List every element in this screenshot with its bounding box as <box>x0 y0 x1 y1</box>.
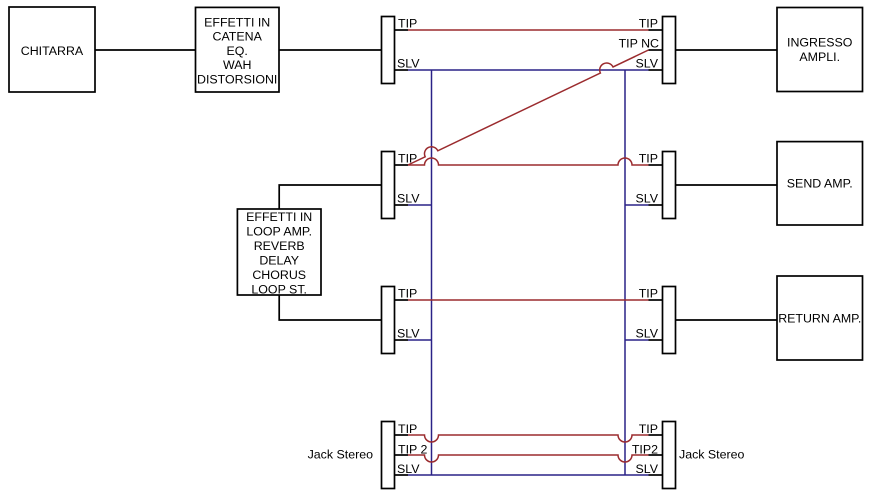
svg-text:SLV: SLV <box>636 462 659 476</box>
svg-text:TIP: TIP <box>639 422 658 436</box>
svg-text:CHITARRA: CHITARRA <box>21 44 84 58</box>
jack J1R (row1 right) <box>663 17 676 84</box>
svg-text:EFFETTI IN: EFFETTI IN <box>204 16 270 30</box>
pin stub J1R SLV <box>649 69 663 71</box>
pin stub J1R TIP <box>649 29 663 31</box>
wire SLV row3 right (blue) <box>625 339 649 341</box>
pin stub J3R SLV <box>649 339 663 341</box>
wire J2R to SEND AMP <box>676 184 778 186</box>
svg-text:TIP: TIP <box>398 17 417 31</box>
pin stub J2L TIP <box>395 164 409 166</box>
wire EFFETTI LOOP top to jack J2L <box>279 185 381 209</box>
pin stub J4R SLV <box>649 474 663 476</box>
wire J1R to INGRESSO AMPLI <box>676 49 778 51</box>
svg-text:TIP: TIP <box>639 287 658 301</box>
pin stub J4R TIP2 <box>649 454 663 456</box>
pin stub J2L SLV <box>395 204 409 206</box>
wire TIP2 row4 (red, hops under V1 and V2) <box>408 455 649 462</box>
pin stub J4L TIP2 <box>395 454 409 456</box>
svg-text:SLV: SLV <box>636 192 659 206</box>
svg-text:SLV: SLV <box>636 57 659 71</box>
svg-text:EFFETTI IN: EFFETTI IN <box>246 210 312 224</box>
pin stub J1R TIP NC <box>649 49 663 51</box>
jack J3R (row3 right) <box>663 287 676 354</box>
pin stub J2R TIP <box>649 164 663 166</box>
pin stub J4L SLV <box>395 474 409 476</box>
jack J2R (row2 right) <box>663 152 676 219</box>
pin stub J2R SLV <box>649 204 663 206</box>
wire EFFETTI IN CATENA to jack J1L <box>279 49 382 51</box>
svg-text:Jack Stereo: Jack Stereo <box>679 448 745 462</box>
svg-text:SLV: SLV <box>397 327 420 341</box>
svg-text:TIP NC: TIP NC <box>619 37 659 51</box>
svg-text:REVERB: REVERB <box>254 239 305 253</box>
svg-text:DELAY: DELAY <box>259 253 299 267</box>
pin stub J1L SLV <box>395 69 409 71</box>
wire SLV row3 left (blue) <box>408 339 432 341</box>
box EFFETTI IN CATENA <box>196 7 280 92</box>
box SEND AMP <box>777 142 863 225</box>
wire SLV row1 (blue) <box>408 69 649 71</box>
jack J4R (row4 right, stereo) <box>663 422 676 489</box>
svg-text:RETURN AMP.: RETURN AMP. <box>778 311 861 325</box>
wire blue bus V1 <box>431 70 433 475</box>
svg-text:TIP: TIP <box>398 152 417 166</box>
wire TIP row1 (red) <box>408 29 649 31</box>
svg-text:SLV: SLV <box>397 57 420 71</box>
wire blue bus V2 <box>624 70 626 475</box>
svg-text:LOOP ST.: LOOP ST. <box>251 282 307 296</box>
pin stub J1L TIP <box>395 29 409 31</box>
wire SLV row4 (blue) <box>408 474 649 476</box>
svg-text:LOOP AMP.: LOOP AMP. <box>246 224 312 238</box>
svg-text:AMPLI.: AMPLI. <box>799 50 840 64</box>
svg-text:SLV: SLV <box>397 462 420 476</box>
pin stub J3L SLV <box>395 339 409 341</box>
pin stub J3L TIP <box>395 299 409 301</box>
pin stub J4R TIP <box>649 434 663 436</box>
box RETURN AMP <box>777 276 863 360</box>
svg-text:EQ.: EQ. <box>227 44 248 58</box>
svg-text:WAH: WAH <box>223 58 251 72</box>
svg-text:TIP: TIP <box>398 287 417 301</box>
pin stub J3R TIP <box>649 299 663 301</box>
wire CHITARRA to EFFETTI IN CATENA <box>95 49 196 51</box>
box INGRESSO AMPLI <box>777 8 863 92</box>
svg-text:SLV: SLV <box>636 327 659 341</box>
svg-text:DISTORSIONI: DISTORSIONI <box>197 72 277 86</box>
box CHITARRA <box>9 7 95 92</box>
svg-text:SEND AMP.: SEND AMP. <box>787 177 853 191</box>
wire TIP row2 (red, hops over V1 and V2) <box>408 158 649 165</box>
svg-text:CHORUS: CHORUS <box>252 268 306 282</box>
jack J2L (row2 left) <box>382 152 395 219</box>
svg-text:TIP: TIP <box>398 422 417 436</box>
wire J3R to RETURN AMP <box>676 319 778 321</box>
wire SLV row2 right (blue) <box>625 204 649 206</box>
jack J1L (row1 left) <box>382 17 395 84</box>
wire TIP row3 (red) <box>408 299 649 301</box>
wire SLV row2 left (blue) <box>408 204 432 206</box>
pin stub J4L TIP <box>395 434 409 436</box>
jack J4L (row4 left, stereo) <box>382 422 395 489</box>
wire diagonal J2L TIP to J1R TIP NC (red, hops) <box>408 50 649 165</box>
wire TIP row4 (red, hops under V1 and V2) <box>408 435 649 442</box>
svg-text:TIP: TIP <box>639 152 658 166</box>
svg-text:SLV: SLV <box>397 192 420 206</box>
wire EFFETTI LOOP bottom to jack J3L <box>279 295 381 320</box>
svg-text:TIP: TIP <box>639 17 658 31</box>
box EFFETTI IN LOOP <box>237 209 321 296</box>
svg-text:CATENA: CATENA <box>213 30 263 44</box>
svg-text:Jack Stereo: Jack Stereo <box>308 448 374 462</box>
jack J3L (row3 left) <box>382 287 395 354</box>
svg-text:INGRESSO: INGRESSO <box>787 36 853 50</box>
